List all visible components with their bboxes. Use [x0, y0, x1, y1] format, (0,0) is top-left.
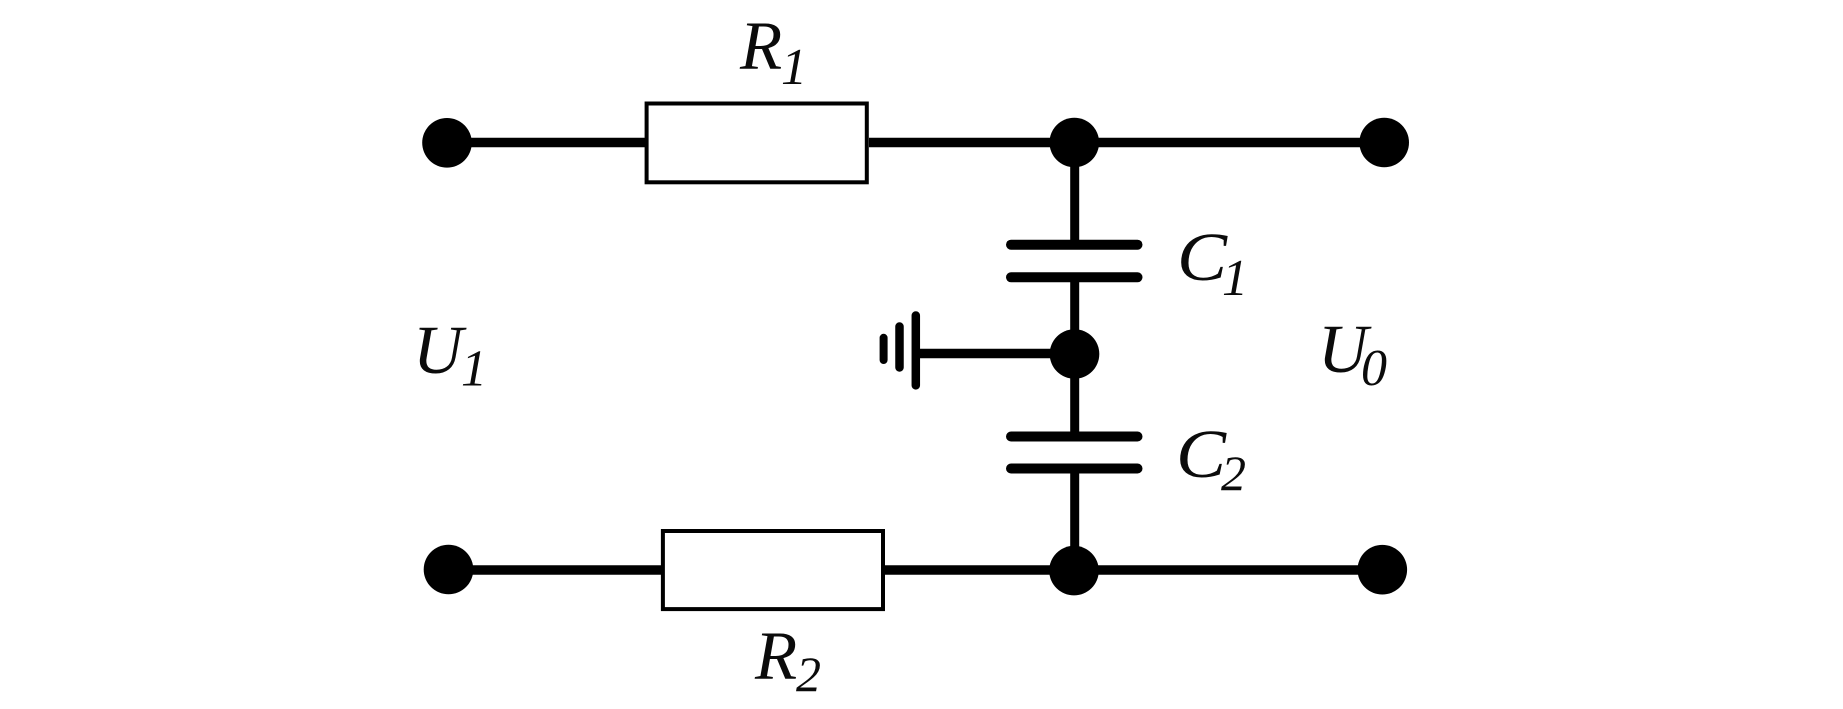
svg-text:2: 2 [1221, 445, 1246, 501]
svg-text:C: C [1177, 219, 1228, 295]
svg-text:R: R [754, 618, 797, 694]
svg-text:0: 0 [1361, 340, 1387, 397]
svg-text:C: C [1176, 416, 1227, 492]
svg-text:1: 1 [781, 39, 807, 96]
svg-text:1: 1 [461, 341, 487, 398]
svg-text:1: 1 [1222, 250, 1248, 307]
svg-text:R: R [739, 8, 782, 84]
svg-text:2: 2 [796, 646, 821, 702]
svg-text:U: U [413, 312, 467, 388]
